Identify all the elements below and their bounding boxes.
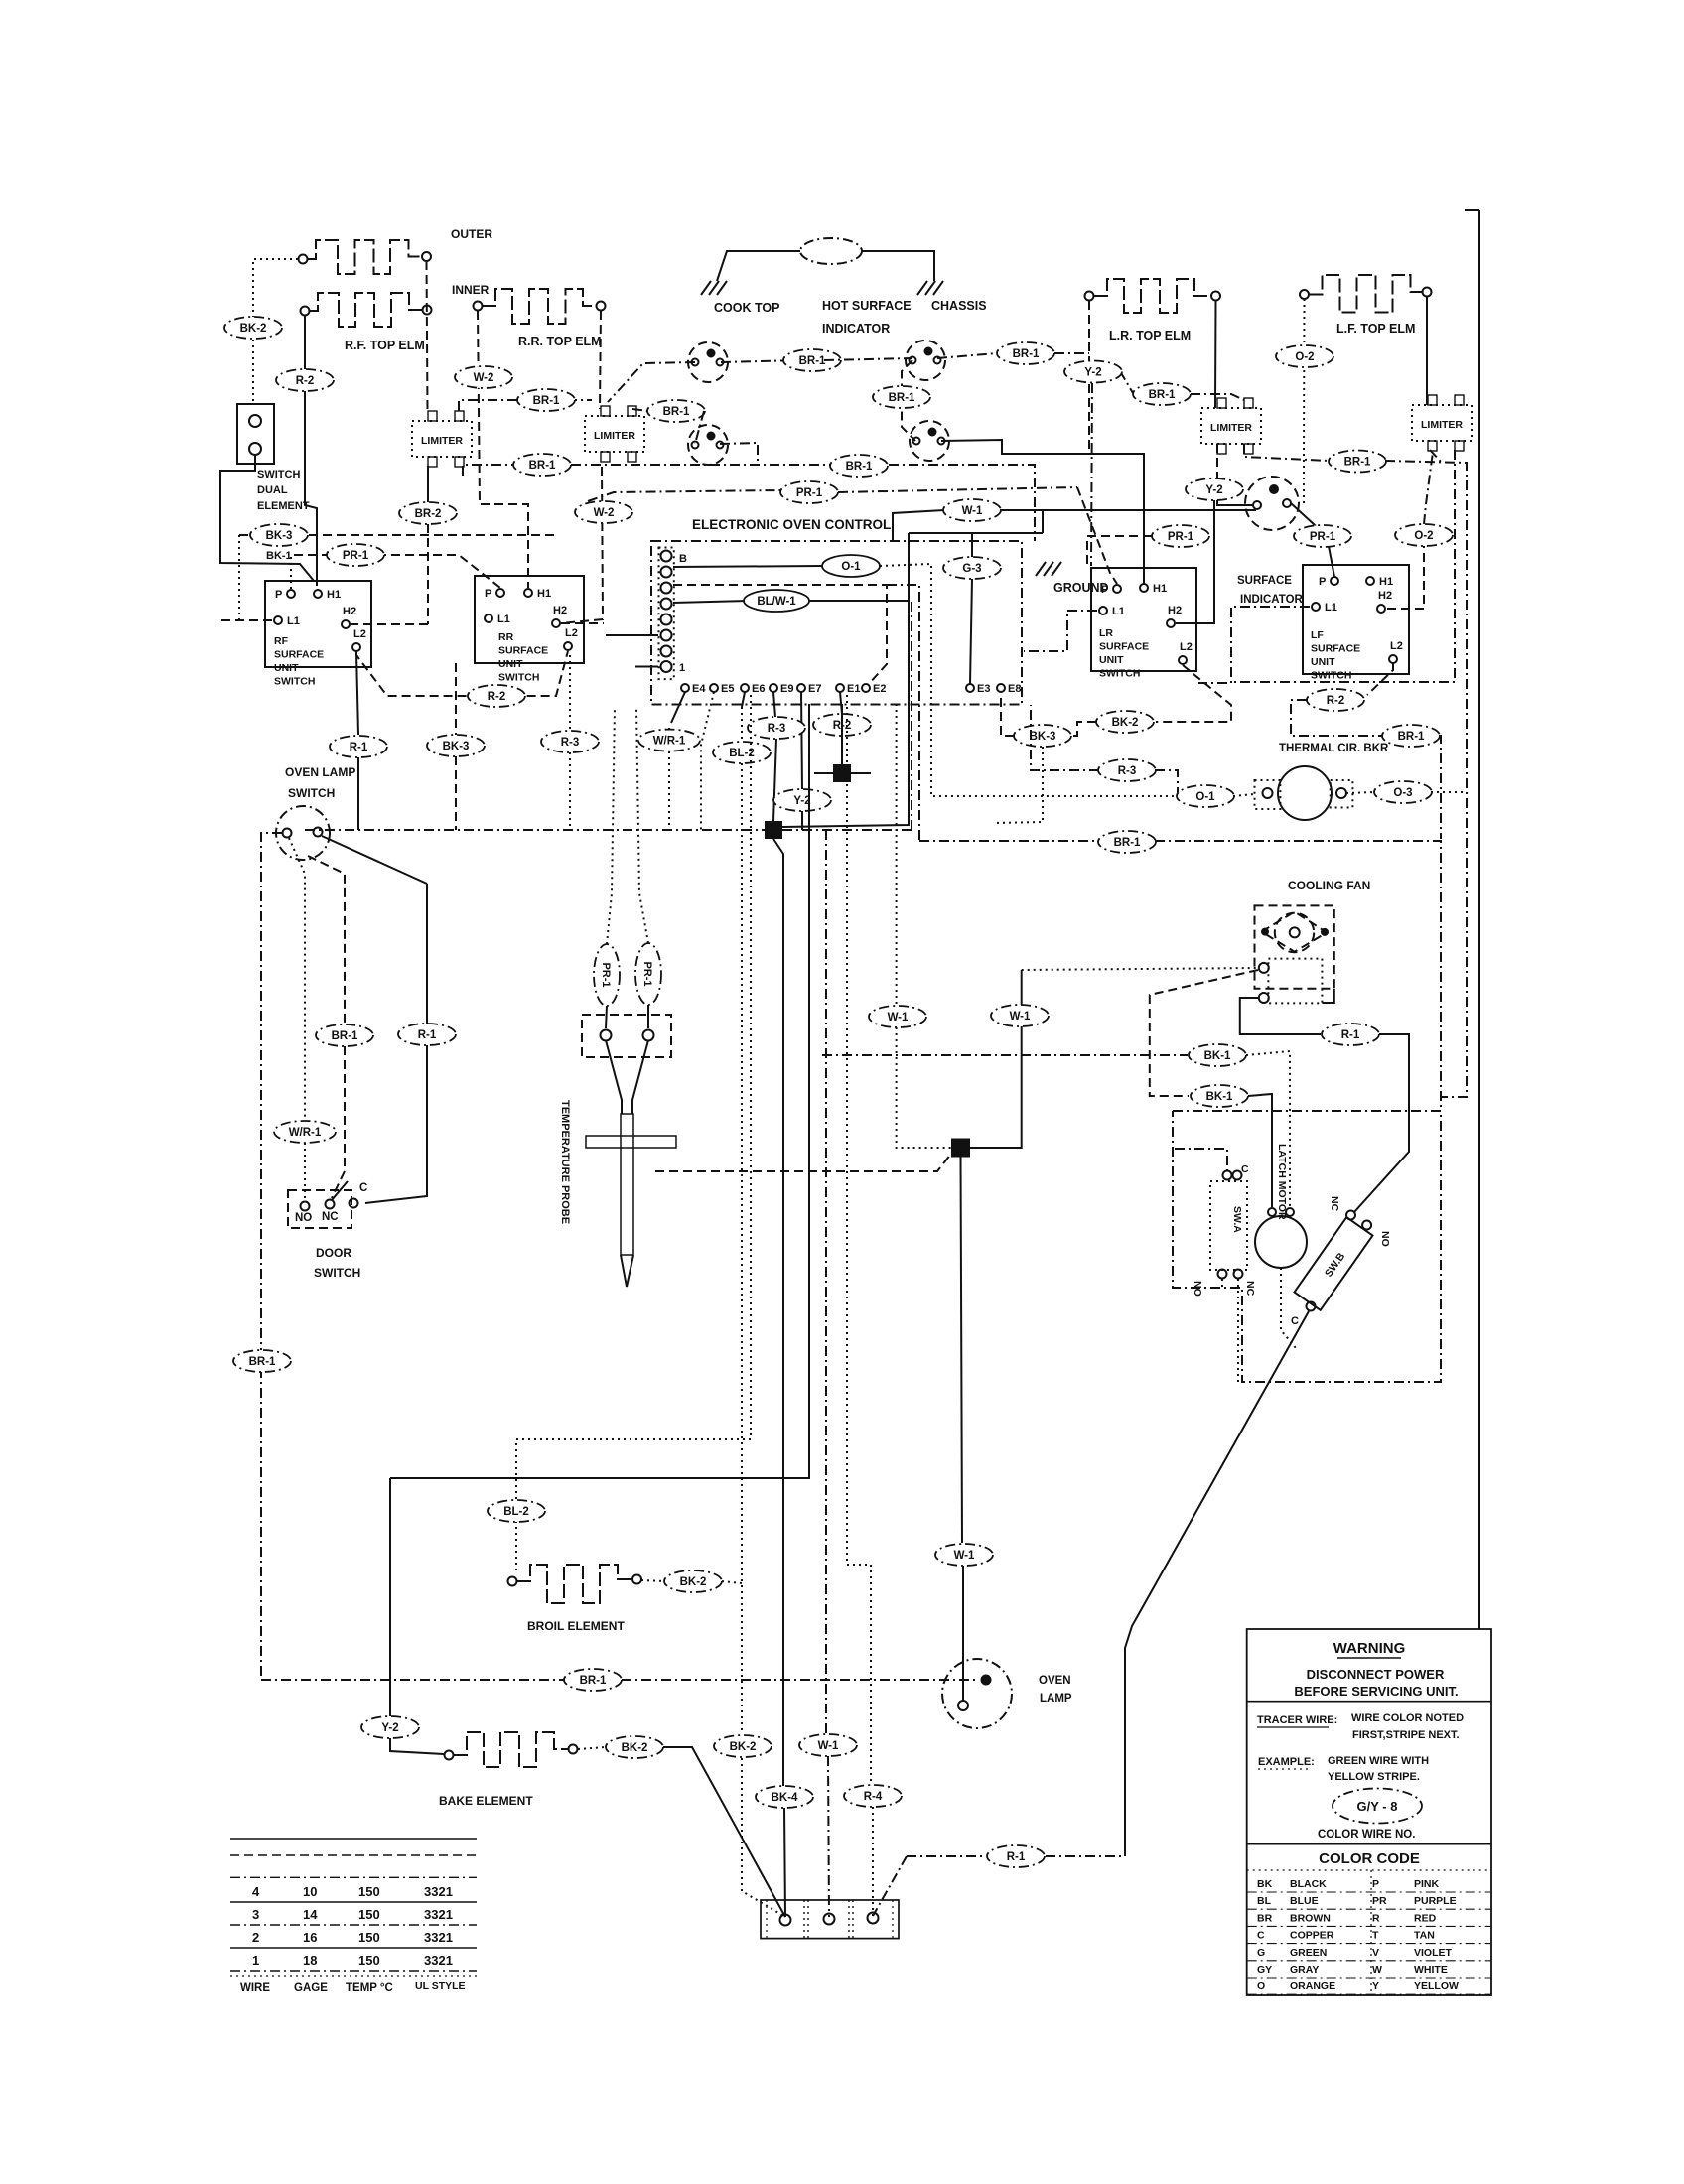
svg-text:CHASSIS: CHASSIS: [931, 299, 987, 313]
svg-text:ORANGE: ORANGE: [1290, 1980, 1335, 1992]
label TEMPERATURE PROBE: [559, 1100, 571, 1224]
wire label R-1 at (1023,1870): [987, 1845, 1045, 1867]
wire BK-3 vertical x459: [455, 663, 457, 735]
wire R-3 right to O-1: [1155, 770, 1178, 794]
wire label BR-1 at (1135,848): [1098, 831, 1156, 853]
svg-text:Y-2: Y-2: [1084, 367, 1101, 379]
svg-text:GRAY: GRAY: [1290, 1964, 1319, 1976]
label GREEN WIRE WITH: [1328, 1755, 1429, 1767]
wire BK-1a bus: [822, 1054, 1188, 1056]
svg-text:PURPLE: PURPLE: [1414, 1895, 1457, 1907]
wire label R-3 at (1135,776): [1098, 759, 1156, 781]
wire R-1 x361 lower: [357, 757, 359, 830]
svg-text:G: G: [1257, 1947, 1265, 1959]
wire label BK-1 at (1228,1104): [1191, 1085, 1248, 1107]
wire O-2 right vertical: [1424, 452, 1433, 524]
svg-text:B: B: [679, 553, 687, 565]
label NO swb: [1379, 1231, 1391, 1247]
svg-text:BROWN: BROWN: [1290, 1912, 1331, 1924]
wire surface ind left: [1217, 500, 1253, 505]
wire x815 vertical: [390, 704, 809, 1478]
svg-text:BLUE: BLUE: [1290, 1895, 1319, 1907]
svg-text:WHITE: WHITE: [1414, 1964, 1448, 1976]
wire latch bottom: [1281, 1268, 1296, 1348]
svg-text:LF: LF: [1311, 629, 1324, 641]
svg-text:RED: RED: [1414, 1912, 1437, 1924]
wire EOC row6 left: [606, 634, 658, 636]
wire BK-4 to pin: [784, 1808, 785, 1917]
svg-text:TEMP °C: TEMP °C: [346, 1982, 393, 1994]
wire lamp1 right to lamp2: [721, 360, 800, 362]
label NC: [322, 1211, 339, 1223]
junction square 3: [951, 1139, 970, 1158]
wire label BR-1 at (865,469): [830, 455, 888, 477]
wire Y-2 mid to bus: [801, 811, 803, 830]
wire E1 down: [840, 692, 842, 714]
label DOOR: [316, 1246, 351, 1260]
wire PR-1 left bus: [1087, 536, 1152, 566]
svg-text:Y: Y: [1372, 1980, 1379, 1992]
wire surface ind right to P LF: [1291, 503, 1334, 577]
door switch lever: [332, 1181, 348, 1200]
svg-text:L.R. TOP ELM: L.R. TOP ELM: [1109, 329, 1191, 342]
wire lamp2 bus to LR vertical: [1054, 352, 1089, 354]
wire label BK-2 at (748,1759): [714, 1735, 772, 1757]
svg-text:R-1: R-1: [1007, 1851, 1026, 1863]
svg-text:3321: 3321: [424, 1884, 453, 1899]
wire gauge table: [230, 1839, 477, 1994]
label THERMAL CIR. BKR: [1279, 743, 1389, 754]
svg-text:TAN: TAN: [1414, 1930, 1435, 1942]
svg-text:PR-1: PR-1: [796, 487, 823, 499]
svg-text:O-3: O-3: [1393, 787, 1412, 799]
label TRACER WIRE: [1257, 1714, 1337, 1727]
heating element LR TOP ELM: [1085, 279, 1221, 313]
svg-text:GREEN: GREEN: [1290, 1947, 1327, 1959]
svg-text:YELLOW: YELLOW: [1414, 1980, 1459, 1992]
indicator lamp cook top 2: [688, 425, 728, 465]
svg-text:R-3: R-3: [1118, 765, 1137, 777]
svg-text:H1: H1: [537, 588, 551, 600]
probe neck: [606, 1040, 648, 1114]
wire label W-2 at (608,516): [575, 501, 632, 523]
wire x347 vertical: [308, 856, 345, 1025]
svg-text:BK: BK: [1257, 1878, 1273, 1890]
svg-text:C: C: [359, 1182, 367, 1194]
svg-text:E6: E6: [752, 683, 765, 695]
wire limiter LF bottom-left pin diag: [1430, 450, 1442, 463]
svg-text:DISCONNECT POWER: DISCONNECT POWER: [1307, 1667, 1445, 1682]
cooling fan motor: [1262, 912, 1329, 953]
svg-text:WIRE COLOR NOTED: WIRE COLOR NOTED: [1351, 1712, 1464, 1724]
svg-text:P: P: [1319, 576, 1326, 588]
long bus y836 right: [782, 829, 912, 831]
junction square 2: [765, 821, 782, 839]
label COOK TOP: [714, 301, 779, 315]
svg-text:150: 150: [358, 1953, 380, 1968]
svg-text:SURFACE: SURFACE: [498, 645, 548, 657]
svg-text:BEFORE SERVICING UNIT.: BEFORE SERVICING UNIT.: [1294, 1684, 1458, 1699]
wire label W-1 at (834,1758): [799, 1734, 857, 1756]
wire Y-2 top down to LR switch: [1091, 383, 1092, 566]
svg-text:LR: LR: [1099, 627, 1113, 639]
label COLOR WIRE NO: [1318, 1829, 1415, 1841]
wire label R-2 at (848,730): [813, 714, 871, 736]
svg-text:BR-1: BR-1: [1114, 837, 1141, 849]
right frame top corner: [1465, 209, 1479, 211]
wire RR right terminal to limiter 2: [600, 311, 601, 409]
wire label W-1 at (904,1024): [869, 1006, 926, 1027]
wire label Y-2 at (393,1740): [361, 1716, 419, 1738]
wire x756 vertical: [516, 695, 751, 1572]
wire Y-2 to bake: [390, 1738, 444, 1754]
svg-text:BR-1: BR-1: [533, 395, 560, 407]
wire R-2 vertical from inner coil: [305, 316, 317, 586]
label OVEN: [1039, 1675, 1071, 1687]
svg-text:3: 3: [252, 1907, 259, 1922]
wire switch left to tall vertical: [261, 833, 282, 1680]
svg-text:VIOLET: VIOLET: [1414, 1947, 1453, 1959]
svg-text:E4: E4: [692, 683, 706, 695]
cooling fan box: [1255, 905, 1334, 988]
svg-text:GREEN WIRE WITH: GREEN WIRE WITH: [1328, 1755, 1429, 1767]
wire BK-2 to BK-3: [1071, 722, 1096, 736]
svg-text:NO: NO: [1379, 1231, 1391, 1247]
svg-text:R-1: R-1: [418, 1029, 437, 1041]
label WARNING: [1333, 1640, 1406, 1658]
heating element RF TOP ELM inner coil: [301, 293, 432, 327]
wire RR H2 dashed: [561, 622, 604, 624]
label BAKE ELEMENT: [439, 1794, 533, 1808]
svg-text:OVEN LAMP: OVEN LAMP: [285, 765, 355, 779]
svg-text:PR-1: PR-1: [1168, 531, 1194, 543]
probe tip: [621, 1255, 633, 1287]
wire E1 down2: [841, 736, 843, 763]
wire label W/R-1 at (307,1140): [274, 1121, 336, 1143]
svg-text:R-1: R-1: [1341, 1029, 1360, 1041]
wire label BK-2 at (1133,727): [1096, 711, 1154, 733]
label FIRST STRIPE NEXT: [1352, 1729, 1460, 1741]
wire O-1 to right vertical: [880, 564, 1178, 796]
wire label BR-1 at (264,1371): [233, 1350, 291, 1372]
svg-text:2: 2: [252, 1930, 259, 1945]
label BROIL ELEMENT: [527, 1619, 625, 1633]
bake element: [445, 1732, 578, 1767]
label INDICATOR: [822, 322, 890, 336]
wire R-1 bottom right: [1046, 1855, 1125, 1857]
wire label BR-1 at (1367,464.5): [1329, 451, 1386, 473]
wire BR-1 to lamp4 left: [695, 411, 704, 444]
probe crossbar: [586, 1136, 676, 1148]
long bus y847: [919, 840, 1099, 842]
svg-text:COLOR CODE: COLOR CODE: [1319, 1850, 1420, 1867]
svg-text:R.R. TOP ELM: R.R. TOP ELM: [518, 335, 602, 348]
label GROUND: [1053, 581, 1109, 595]
label SWITCH oven lamp: [288, 786, 335, 800]
svg-text:18: 18: [303, 1953, 317, 1968]
wire RF P terminal up: [290, 555, 292, 589]
svg-text:P: P: [1372, 1878, 1379, 1890]
svg-text:LIMITER: LIMITER: [421, 435, 463, 447]
wire E5 down: [701, 692, 714, 830]
label LAMP: [1040, 1693, 1072, 1705]
svg-text:L.F. TOP ELM: L.F. TOP ELM: [1336, 322, 1415, 336]
svg-text:BK-4: BK-4: [772, 1792, 798, 1804]
wire x926 vertical: [887, 585, 919, 841]
wire label BK-3 at (281,539): [250, 524, 308, 546]
wire BK-3 left drop: [238, 535, 240, 620]
svg-text:R-2: R-2: [1327, 695, 1345, 707]
wire to SW.A C terminal: [1175, 1149, 1227, 1170]
svg-text:H2: H2: [553, 605, 567, 616]
svg-text:SURFACE: SURFACE: [1311, 643, 1360, 655]
oven lamp circle: [942, 1659, 1012, 1728]
wire W/R-1 vertical: [668, 728, 670, 830]
svg-text:SURFACE: SURFACE: [1099, 641, 1149, 653]
label OVEN LAMP: [285, 765, 355, 779]
wire label PR-1 vertical at (653,981): [635, 943, 661, 1005]
wire LR elm left vertical: [1088, 301, 1090, 454]
wire EOC row3 dashed: [673, 585, 887, 685]
wire PR-1 bus to RR switch P: [294, 555, 500, 588]
wire junction1 sides: [814, 772, 871, 774]
wire x902 vertical lower: [897, 1027, 951, 1148]
svg-text:FIRST,STRIPE NEXT.: FIRST,STRIPE NEXT.: [1352, 1729, 1460, 1741]
wire R-1 to pin3: [873, 1856, 907, 1916]
svg-text:COOK TOP: COOK TOP: [714, 301, 779, 315]
wire top ellipse left: [717, 251, 800, 281]
svg-text:INDICATOR: INDICATOR: [1240, 594, 1304, 606]
wire lamp2 right bus: [937, 353, 997, 358]
wire RF L1 dashed: [221, 619, 274, 621]
svg-text:PR-1: PR-1: [1310, 531, 1336, 543]
svg-text:COLOR WIRE NO.: COLOR WIRE NO.: [1318, 1829, 1415, 1841]
wire x430 vertical: [426, 884, 428, 1024]
label R.F. TOP ELM: [345, 339, 425, 352]
svg-text:L2: L2: [1390, 640, 1403, 652]
svg-text:E9: E9: [780, 683, 793, 695]
svg-text:ELECTRONIC OVEN CONTROL: ELECTRONIC OVEN CONTROL: [692, 517, 891, 532]
wire LF L1 left: [1198, 607, 1310, 683]
wire BLW1 right elbow: [809, 600, 909, 602]
wire label PR-1 vertical at (611,982): [594, 944, 620, 1006]
wire LF elm left vertical: [1303, 299, 1306, 504]
svg-text:R: R: [1372, 1912, 1380, 1924]
wire label PR-1 at (815,496): [780, 481, 838, 503]
color code table: [1247, 1870, 1491, 1995]
svg-text:EXAMPLE:: EXAMPLE:: [1258, 1756, 1315, 1768]
wire x307 vertical: [289, 838, 305, 1121]
svg-text:RF: RF: [274, 635, 289, 647]
svg-text:W/R-1: W/R-1: [289, 1127, 322, 1139]
wire label R-1 at (430,1042): [398, 1024, 456, 1045]
long bus y1692 right: [622, 1679, 979, 1681]
svg-text:BK-2: BK-2: [622, 1742, 648, 1754]
svg-text:INDICATOR: INDICATOR: [822, 322, 890, 336]
wire W-1 to pin2: [828, 1756, 829, 1917]
wire probe lead right up: [636, 707, 648, 943]
probe shaft: [621, 1114, 633, 1255]
wire label G-3 at (979,572): [943, 557, 1001, 579]
svg-text:BK-3: BK-3: [1030, 731, 1056, 743]
svg-text:BK-1: BK-1: [266, 550, 292, 562]
svg-text:RR: RR: [498, 631, 514, 643]
wire E9 down2: [773, 739, 776, 821]
svg-text:BK-1: BK-1: [1206, 1091, 1233, 1103]
svg-text:W-2: W-2: [594, 507, 615, 519]
wire PR-1 mid bus right: [838, 487, 1077, 492]
wire BK-3 bus: [239, 534, 556, 536]
wire R-4 to pin3: [872, 1807, 874, 1916]
svg-text:LAMP: LAMP: [1040, 1693, 1072, 1705]
wire O-3 right elbow: [1431, 791, 1467, 793]
svg-text:BL/W-1: BL/W-1: [757, 596, 796, 608]
thermal circuit breaker: [1255, 766, 1353, 820]
wire BR-2 lower: [427, 524, 429, 624]
latch motor circle: [1255, 1216, 1307, 1268]
SW.A box: [1210, 1181, 1247, 1270]
svg-text:SWITCH: SWITCH: [1099, 668, 1140, 680]
wire x747 long vertical2: [741, 763, 743, 1734]
svg-text:L2: L2: [565, 627, 578, 639]
wire x347 lower: [332, 1046, 345, 1198]
wire label BR-1 at (1033,356): [997, 342, 1054, 364]
wire breaker to O-3: [1346, 792, 1375, 793]
svg-text:BLACK: BLACK: [1290, 1878, 1327, 1890]
wire label BL-2 at (747,758): [713, 742, 771, 763]
svg-text:OUTER: OUTER: [451, 227, 492, 241]
svg-text:BL: BL: [1257, 1895, 1272, 1907]
svg-text:NO: NO: [1192, 1281, 1203, 1297]
wire RF L2 to R-2 bus: [356, 651, 568, 696]
svg-text:T: T: [1372, 1930, 1379, 1942]
wire fan t1 diagonal: [1150, 970, 1258, 1096]
wire label BK-2 at (698,1593): [664, 1570, 722, 1592]
svg-text:W-1: W-1: [818, 1740, 839, 1752]
indicator lamp chassis: [910, 421, 949, 461]
svg-text:UNIT: UNIT: [1311, 656, 1335, 668]
wire probe lead right down: [647, 1005, 649, 1028]
label EXAMPLE: [1258, 1756, 1315, 1769]
wire limiter LF bottom-right pin down: [1233, 450, 1455, 682]
wire label O-2 at (1434,539): [1395, 524, 1453, 546]
label L.F. TOP ELM: [1336, 322, 1415, 336]
label OUTER: [451, 227, 492, 241]
svg-text:H1: H1: [327, 589, 341, 601]
wire from outer right terminal to limiter 1: [427, 261, 428, 411]
wire label R-2 at (1345,705): [1307, 689, 1364, 711]
svg-text:BAKE ELEMENT: BAKE ELEMENT: [439, 1794, 533, 1808]
LR surface unit switch: [1091, 568, 1196, 680]
svg-text:PR: PR: [1372, 1895, 1387, 1907]
svg-text:BROIL ELEMENT: BROIL ELEMENT: [527, 1619, 625, 1633]
svg-text:L1: L1: [1112, 606, 1125, 617]
label SURFACE: [1237, 575, 1292, 587]
svg-text:LIMITER: LIMITER: [1421, 419, 1463, 431]
ground chassis: [917, 281, 943, 295]
wire W-1 bus right: [1000, 509, 1256, 511]
label INDICATOR2: [1240, 594, 1304, 606]
wire y537 horizontal: [909, 532, 1043, 534]
svg-text:PINK: PINK: [1414, 1878, 1440, 1890]
svg-text:W/R-1: W/R-1: [653, 736, 686, 748]
label LATCH MOTOR: [1276, 1144, 1288, 1220]
wire lamp2 left drop to lamp3: [902, 360, 915, 441]
junction square 1: [833, 764, 851, 782]
wire W-2 vertical from RR left terminal: [478, 311, 528, 588]
wire limiter LR bottom: [1216, 444, 1218, 478]
long bus y836: [305, 829, 765, 831]
svg-text:BL-2: BL-2: [503, 1506, 529, 1518]
svg-text:WIRE: WIRE: [240, 1982, 270, 1994]
svg-text:W-1: W-1: [962, 505, 983, 517]
wire BK-2 broil right: [722, 1581, 742, 1583]
indicator lamp cook top 1: [688, 342, 728, 382]
svg-text:C: C: [1241, 1163, 1249, 1175]
svg-text:SURFACE: SURFACE: [274, 649, 324, 661]
svg-text:1: 1: [679, 662, 685, 674]
svg-text:SWITCH: SWITCH: [288, 786, 335, 800]
wire BR-2 vertical limiter1 bottom: [427, 466, 429, 502]
svg-text:O-1: O-1: [841, 561, 861, 573]
wire x430 lower: [365, 1045, 427, 1203]
limiter RR: [585, 406, 644, 462]
RR surface unit switch: [475, 576, 584, 684]
wire R-2 to BR-1 thermal: [1291, 700, 1382, 736]
svg-text:E2: E2: [873, 683, 886, 695]
svg-text:4: 4: [252, 1884, 260, 1899]
heating element RR TOP ELM: [474, 289, 606, 324]
label L.R. TOP ELM: [1109, 329, 1191, 342]
svg-text:H2: H2: [1378, 590, 1392, 602]
svg-text:E8: E8: [1008, 683, 1021, 695]
wire switch right diagonal: [322, 836, 427, 884]
wire x1050 riser: [1042, 510, 1044, 533]
svg-text:16: 16: [303, 1930, 317, 1945]
svg-text:BR-1: BR-1: [332, 1030, 358, 1042]
wire label Y-2 at (1101,374.5): [1064, 361, 1122, 383]
wire BK-1a right: [1246, 1051, 1290, 1207]
wire LR L1 left: [1024, 611, 1097, 651]
svg-text:GY: GY: [1257, 1964, 1272, 1976]
svg-text:R-3: R-3: [768, 723, 786, 735]
wire label W/R-1 at (674,745.6): [638, 730, 700, 751]
EOC enclosure box: [651, 541, 1022, 705]
wire SW.A bottoms down: [1222, 1279, 1238, 1382]
wire junction3 down: [961, 1157, 963, 1543]
wire label PR-1 at (358,559): [327, 544, 384, 566]
wire label BL-2 at (520,1522): [488, 1500, 545, 1522]
right frame vertical: [1478, 210, 1480, 1629]
svg-text:BR-2: BR-2: [415, 508, 442, 520]
indicator lamp hot surface: [906, 341, 945, 380]
svg-text:YELLOW STRIPE.: YELLOW STRIPE.: [1328, 1771, 1420, 1783]
wire label O-1 at (1214,802): [1177, 785, 1234, 807]
wire BK-3 to E8: [1001, 693, 1014, 736]
wire label W-1 at (979,514): [943, 499, 1001, 521]
svg-text:BR-1: BR-1: [846, 461, 873, 473]
svg-text:GAGE: GAGE: [294, 1982, 328, 1994]
svg-text:H2: H2: [1168, 605, 1182, 616]
wire label BK-1 at (1226,1063): [1189, 1044, 1246, 1066]
wire x902 vertical: [896, 704, 898, 1006]
svg-text:L1: L1: [1325, 602, 1337, 614]
wire BK-2 diagonal to pin1: [663, 1747, 785, 1917]
wire label BR-1 at (1170,397): [1133, 383, 1191, 405]
wire label R-3 at (782,733): [748, 717, 805, 739]
svg-text:W-1: W-1: [954, 1550, 975, 1562]
svg-text:SWITCH: SWITCH: [1311, 670, 1351, 682]
